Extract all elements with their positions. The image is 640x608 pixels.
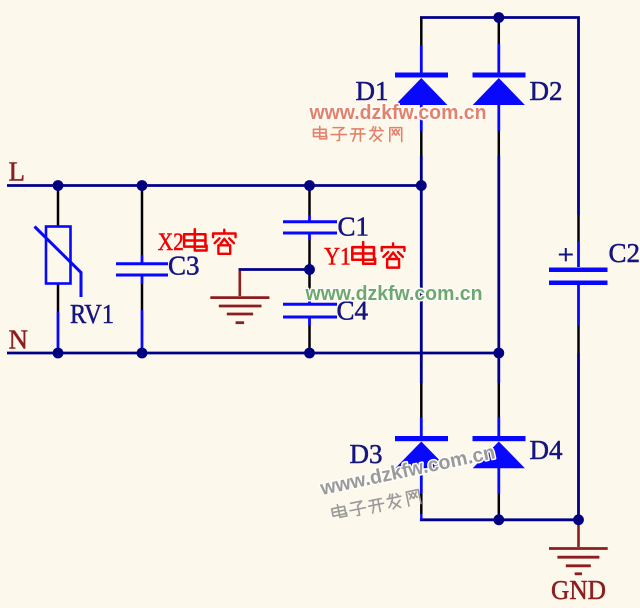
- wire C2 to bottom rail: [577, 353, 580, 520]
- node top rail D2: [493, 12, 504, 23]
- svg-text:C2: C2: [609, 238, 640, 268]
- wire D2 bottom stub: [497, 105, 500, 132]
- wire C2 top pin: [577, 215, 580, 241]
- wire D4 top stub: [497, 417, 500, 436]
- wire D2 bottom pin: [498, 131, 501, 156]
- wire D1 bottom stub: [420, 105, 423, 132]
- wire C3 bottom pin: [141, 284, 144, 310]
- wire RV1 to N: [57, 312, 60, 352]
- wire C1 bottom stub: [308, 234, 311, 240]
- diode D2: [473, 73, 526, 106]
- node N-RV1: [53, 348, 64, 359]
- wire C1 top stub: [308, 215, 311, 221]
- label X2 rong glyph: [213, 230, 236, 254]
- wire N rail: [7, 352, 499, 355]
- wire D4 top pin: [498, 383, 501, 417]
- wire D4 bottom pin: [498, 494, 501, 514]
- wire C4 bottom stub: [308, 318, 311, 326]
- capacitor C2 polarized: [549, 270, 608, 283]
- label X2 dian glyph: [184, 229, 206, 250]
- wire D3 top stub: [420, 417, 423, 436]
- wire D1 bottom pin: [420, 131, 423, 156]
- diode D3: [395, 436, 448, 468]
- wire C1 to ground node: [308, 263, 311, 270]
- wire top positive rail: [420, 16, 580, 19]
- svg-text:www.dzkfw.com.cn: www.dzkfw.com.cn: [309, 102, 487, 124]
- wire C1 top pin: [308, 186, 311, 216]
- wire ground branch horizontal: [239, 268, 310, 271]
- svg-text:C1: C1: [338, 212, 370, 242]
- wire C3 top pin: [141, 186, 144, 256]
- wire C4 to N: [308, 349, 311, 352]
- svg-text:www.dzkfw.com.cn: www.dzkfw.com.cn: [305, 283, 483, 305]
- node N-C4: [304, 348, 315, 359]
- capacitor C2 plus sign: [559, 248, 573, 261]
- wire D3 bottom pin: [420, 494, 423, 514]
- node N-D2: [493, 348, 504, 359]
- svg-text:GND: GND: [551, 575, 606, 605]
- node C1-C4-ground: [304, 264, 315, 275]
- watermark gray line2 rotated dian zi kai fa wang: [331, 488, 421, 521]
- wire D2 top pin: [498, 18, 501, 45]
- node bottom rail D4: [493, 514, 504, 525]
- svg-text:Y1: Y1: [324, 244, 351, 271]
- diode D4: [473, 436, 526, 468]
- wire C2 top from rail: [577, 18, 580, 216]
- svg-text:D3: D3: [350, 439, 383, 469]
- wire C4 top pin: [308, 272, 311, 301]
- ground symbol middle: [210, 271, 269, 323]
- svg-text:RV1: RV1: [70, 299, 114, 329]
- wire D1 top pin: [420, 18, 423, 46]
- wire D2 top stub: [497, 44, 500, 73]
- wire C2 bottom pin: [577, 326, 580, 353]
- wire L node to D3: [420, 186, 423, 384]
- wire C3 bottom stub: [141, 276, 144, 284]
- watermark orange line2 dian zi kai fa wang: [313, 126, 401, 141]
- wire D4 bottom stub: [497, 468, 500, 494]
- node L-RV1: [53, 180, 64, 191]
- capacitor C3: [116, 264, 168, 275]
- wire bottom negative rail: [420, 518, 579, 521]
- capacitor C1: [283, 222, 337, 233]
- node L-C1: [304, 180, 315, 191]
- varistor RV1: [35, 227, 82, 298]
- node L-C3: [137, 180, 148, 191]
- wire D1 top stub: [420, 45, 423, 73]
- svg-text:L: L: [9, 157, 26, 187]
- ground symbol GND: [549, 521, 608, 574]
- node bottom rail GND: [573, 514, 584, 525]
- wire C3 top stub: [141, 255, 144, 263]
- svg-text:D4: D4: [530, 435, 563, 465]
- wire C1 bottom pin: [308, 240, 311, 263]
- wire D4 to bottom rail node: [497, 514, 500, 520]
- wire C2 bottom stub: [577, 285, 580, 326]
- svg-text:X2: X2: [158, 229, 184, 256]
- wire C4 top stub: [308, 301, 311, 304]
- wire D3 top pin: [420, 383, 423, 417]
- wire RV1 top pin: [57, 186, 60, 227]
- wire C3 to N: [141, 310, 144, 352]
- svg-text:N: N: [9, 325, 29, 355]
- label Y1 dian glyph: [352, 242, 375, 264]
- wire D2 to N node: [497, 156, 500, 354]
- wire C2 top stub: [577, 241, 580, 267]
- diode D1: [395, 73, 448, 106]
- wire D3 bottom stub: [420, 468, 423, 494]
- wire D3 to bottom rail: [420, 514, 422, 520]
- node N-C3: [137, 348, 148, 359]
- wire N node to D4: [497, 353, 500, 383]
- label Y1 rong glyph: [382, 243, 405, 267]
- capacitor C4: [283, 304, 337, 317]
- svg-text:D2: D2: [530, 76, 563, 106]
- wire C4 bottom pin: [308, 326, 311, 350]
- wire D1 to L node: [420, 156, 423, 186]
- wire L rail: [7, 184, 421, 187]
- wire RV1 bottom pin: [57, 284, 60, 313]
- node L-D1: [416, 180, 427, 191]
